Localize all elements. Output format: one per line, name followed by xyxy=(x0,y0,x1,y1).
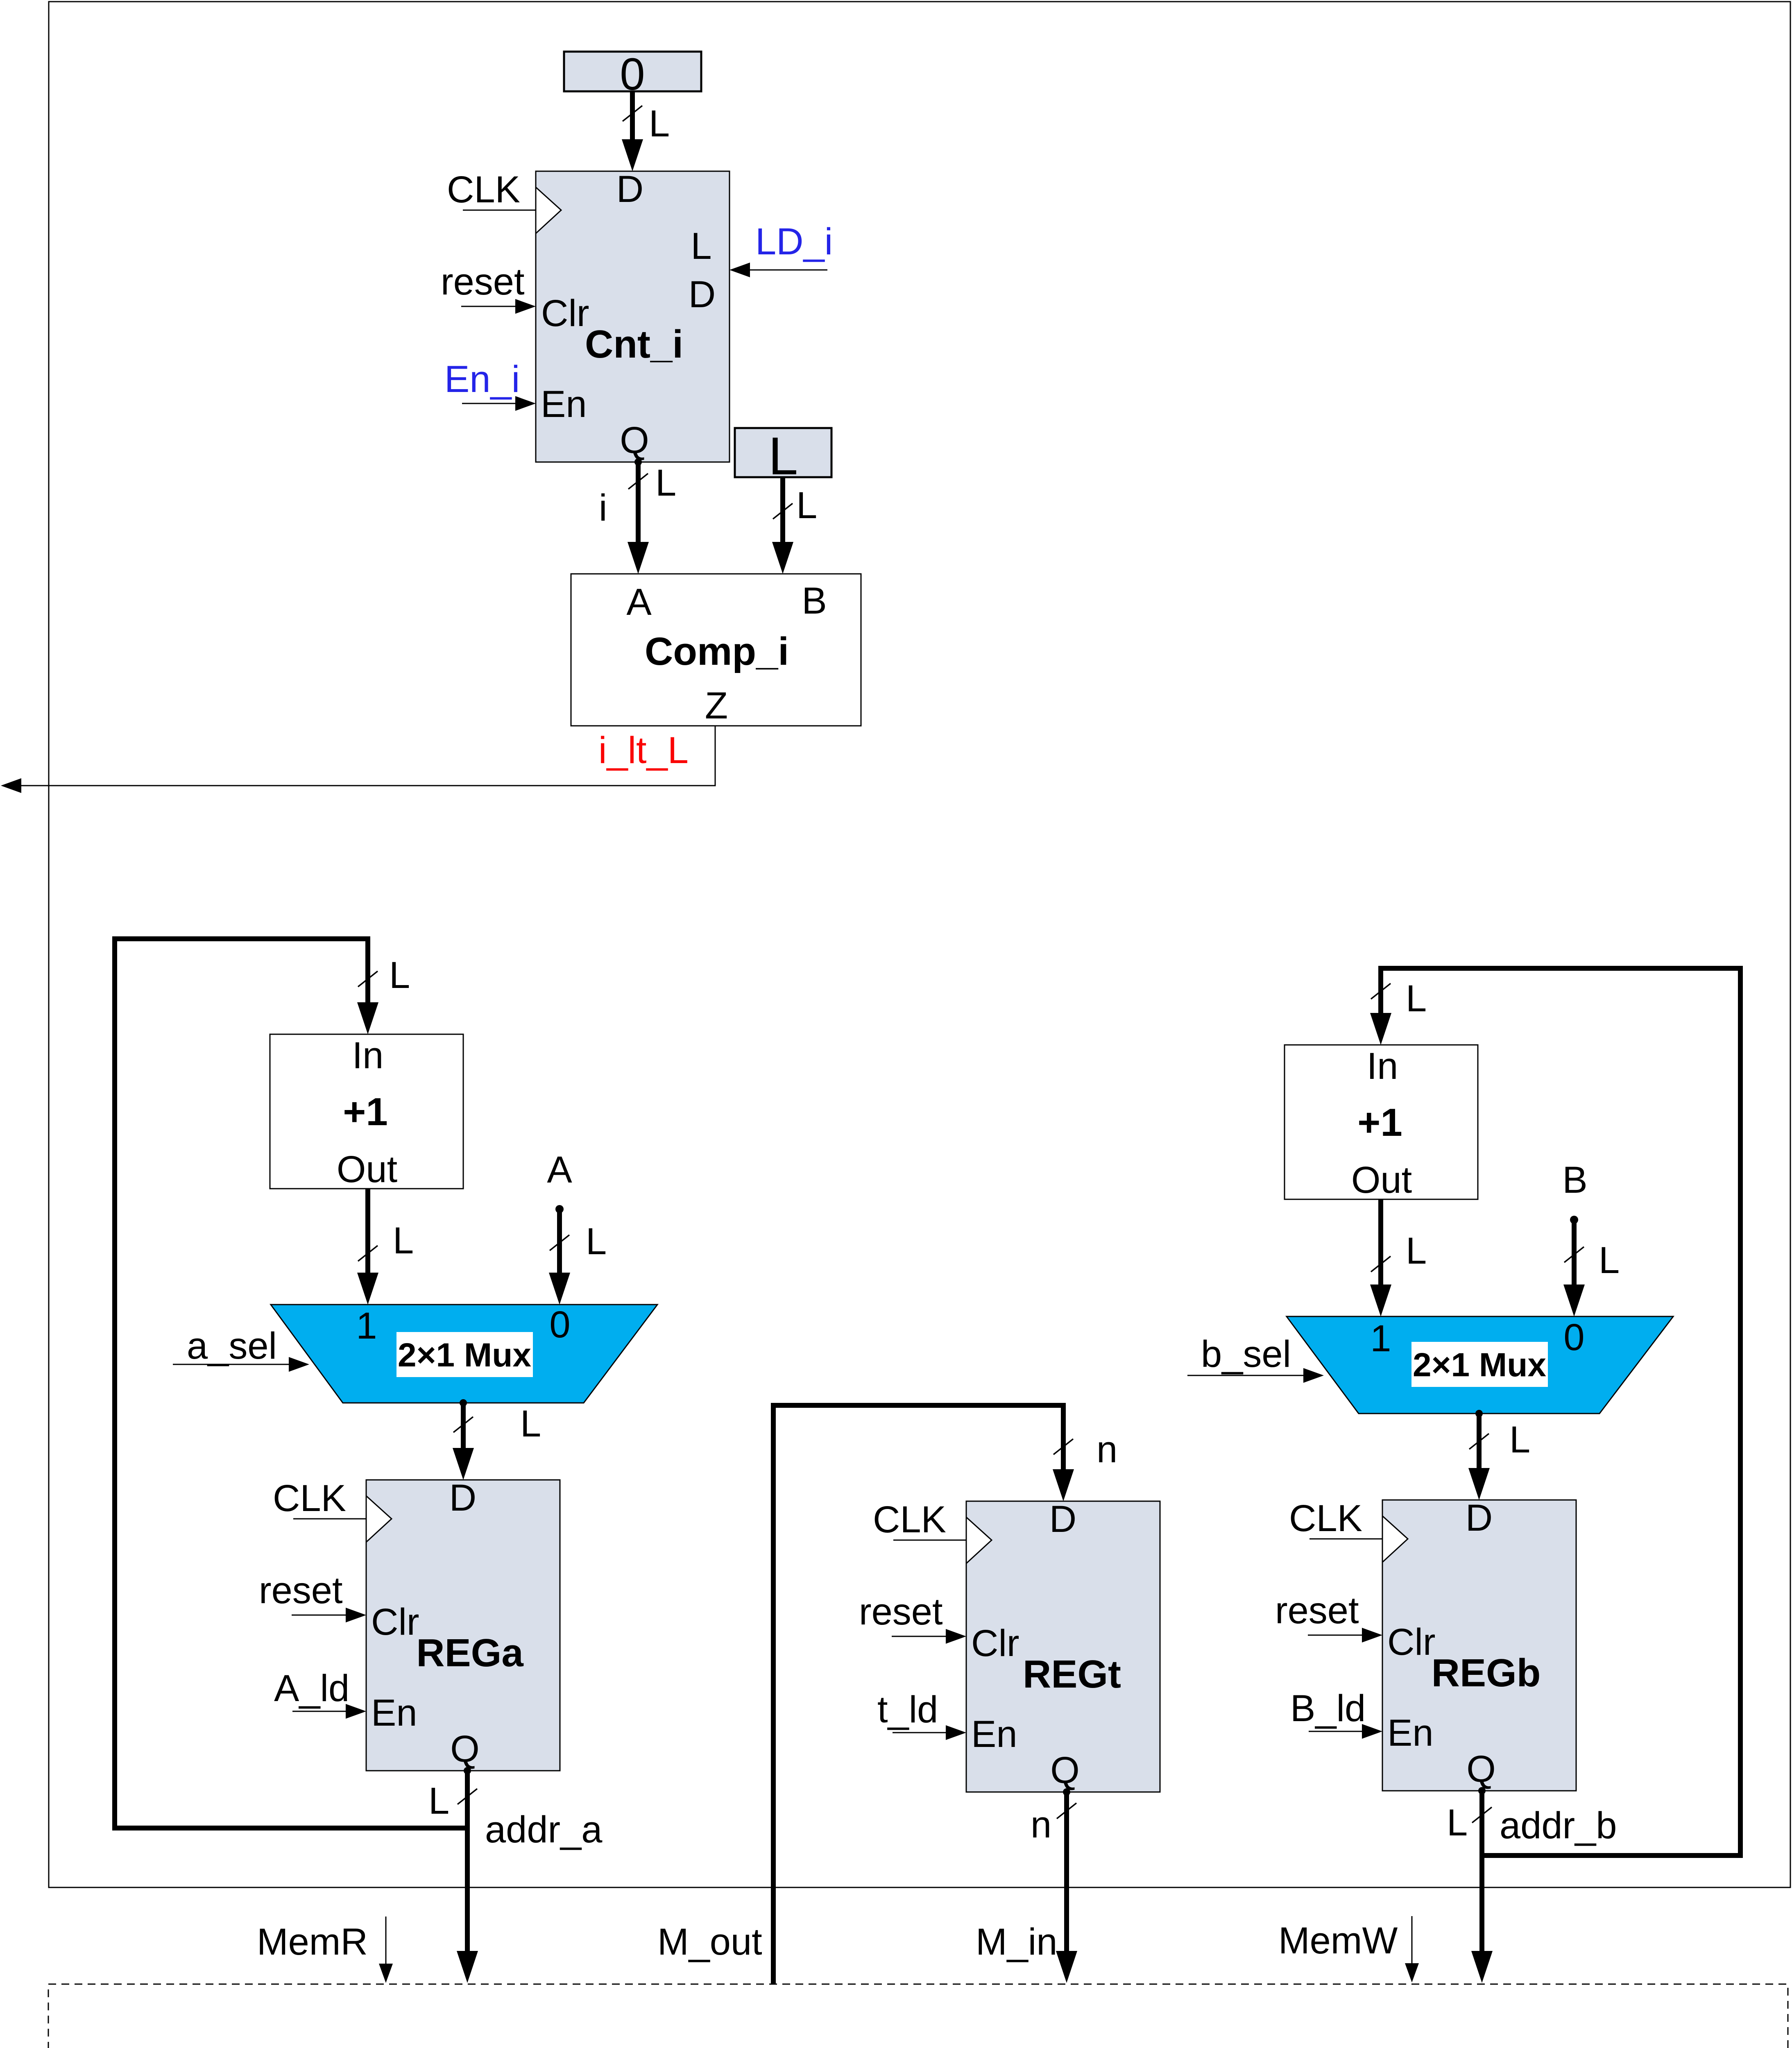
bus wire +1 Out to mux input 1 (left) xyxy=(357,1189,414,1305)
incrementer +1 (left) xyxy=(270,1034,463,1190)
input B bus wire to mux input 0 (right) xyxy=(1562,1159,1620,1316)
bus wire L box to Comp_i B xyxy=(772,477,817,574)
svg-text:A: A xyxy=(626,581,652,623)
register REGa xyxy=(366,1477,560,1771)
svg-text:Z: Z xyxy=(705,685,728,727)
svg-text:Out: Out xyxy=(337,1149,397,1190)
svg-text:Q: Q xyxy=(1466,1748,1496,1790)
bus wire mux out to REGb D (right) xyxy=(1468,1410,1530,1500)
svg-text:CLK: CLK xyxy=(447,169,520,211)
reset input of Cnt_i xyxy=(441,261,536,314)
svg-text:i: i xyxy=(599,487,607,529)
svg-text:D: D xyxy=(689,274,716,315)
svg-text:L: L xyxy=(1509,1419,1530,1461)
svg-text:A_ld: A_ld xyxy=(274,1667,349,1709)
constant 0 box xyxy=(564,49,701,100)
CLK input of Cnt_i xyxy=(447,169,536,211)
A_ld input of REGa xyxy=(274,1667,366,1719)
svg-text:CLK: CLK xyxy=(273,1477,346,1519)
svg-text:1: 1 xyxy=(356,1305,377,1347)
CLK input of REGt xyxy=(873,1499,966,1541)
wire Comp_i Z output i_lt_L to left edge xyxy=(1,726,715,793)
bus wire REGb Q to memory (addr_b) xyxy=(1447,1787,1617,1983)
svg-text:L: L xyxy=(428,1780,449,1822)
svg-text:L: L xyxy=(796,485,817,526)
left feedback bus REGa Q to +1 In xyxy=(115,939,467,1828)
svg-text:Clr: Clr xyxy=(371,1601,419,1643)
bus wire M_out from memory to REGt D xyxy=(657,1405,1117,1984)
svg-text:CLK: CLK xyxy=(873,1499,946,1541)
En_i input (blue) xyxy=(444,358,536,411)
memory block (dashed) xyxy=(48,1984,1788,2048)
bus wire REGa Q to memory (addr_a) xyxy=(428,1767,603,1983)
svg-text:REGb: REGb xyxy=(1432,1651,1541,1695)
CLK input of REGb xyxy=(1289,1497,1382,1539)
svg-text:Clr: Clr xyxy=(971,1622,1019,1664)
svg-text:D: D xyxy=(1049,1498,1076,1540)
svg-text:CLK: CLK xyxy=(1289,1497,1362,1539)
B_ld input of REGb xyxy=(1290,1688,1382,1739)
svg-text:In: In xyxy=(352,1035,384,1076)
svg-text:Comp_i: Comp_i xyxy=(645,630,789,673)
t_ld input of REGt xyxy=(877,1689,966,1740)
svg-text:En_i: En_i xyxy=(444,358,520,400)
svg-text:En: En xyxy=(371,1692,417,1734)
svg-text:reset: reset xyxy=(441,261,525,303)
2x1 mux (right) xyxy=(1287,1316,1673,1414)
svg-text:LD_i: LD_i xyxy=(755,221,833,263)
svg-text:In: In xyxy=(1367,1045,1398,1087)
register REGb xyxy=(1382,1497,1576,1791)
bus wire mux out to REGa D (left) xyxy=(453,1399,541,1480)
comparator Comp_i xyxy=(571,574,861,727)
register REGt xyxy=(966,1498,1160,1792)
reset input of REGt xyxy=(859,1591,966,1644)
svg-text:B_ld: B_ld xyxy=(1290,1688,1366,1729)
svg-text:L: L xyxy=(1599,1239,1620,1281)
svg-text:reset: reset xyxy=(1275,1590,1359,1631)
svg-text:Q: Q xyxy=(1050,1749,1080,1791)
svg-text:reset: reset xyxy=(259,1570,343,1611)
CLK input of REGa xyxy=(273,1477,366,1519)
svg-text:L: L xyxy=(691,225,711,267)
b_sel select input xyxy=(1187,1333,1324,1383)
svg-text:0: 0 xyxy=(549,1304,570,1346)
svg-text:Clr: Clr xyxy=(541,292,589,334)
svg-text:REGa: REGa xyxy=(416,1631,523,1675)
svg-text:Q: Q xyxy=(450,1728,480,1770)
svg-text:MemW: MemW xyxy=(1278,1920,1398,1962)
svg-text:L: L xyxy=(649,103,670,145)
svg-text:L: L xyxy=(655,462,676,504)
incrementer +1 (right) xyxy=(1285,1045,1478,1201)
bus wire REGt Q to memory (M_in) xyxy=(976,1788,1077,1983)
svg-text:2×1 Mux: 2×1 Mux xyxy=(398,1337,531,1374)
svg-text:L: L xyxy=(389,954,410,996)
a_sel select input xyxy=(173,1325,309,1372)
svg-text:2×1 Mux: 2×1 Mux xyxy=(1413,1346,1546,1384)
reset input of REGb xyxy=(1275,1590,1382,1642)
input A bus wire to mux input 0 (left) xyxy=(547,1149,607,1305)
svg-text:a_sel: a_sel xyxy=(187,1325,277,1367)
svg-text:n: n xyxy=(1096,1429,1117,1470)
svg-text:addr_a: addr_a xyxy=(485,1809,603,1851)
svg-text:M_in: M_in xyxy=(976,1921,1057,1963)
svg-text:Cnt_i: Cnt_i xyxy=(585,322,683,366)
svg-text:n: n xyxy=(1031,1804,1051,1846)
svg-text:REGt: REGt xyxy=(1023,1652,1121,1696)
svg-text:Clr: Clr xyxy=(1387,1621,1436,1663)
bus wire Cnt_i Q to Comp_i A (signal i) xyxy=(599,458,676,574)
bus wire 0 to Cnt_i D xyxy=(622,91,670,171)
reset input of REGa xyxy=(259,1570,366,1622)
svg-text:i_lt_L: i_lt_L xyxy=(598,729,689,771)
svg-text:L: L xyxy=(520,1403,541,1445)
svg-text:En: En xyxy=(971,1713,1017,1755)
svg-text:L: L xyxy=(768,426,798,486)
svg-text:reset: reset xyxy=(859,1591,943,1633)
svg-text:b_sel: b_sel xyxy=(1201,1333,1291,1375)
svg-text:En: En xyxy=(1387,1712,1434,1754)
svg-text:L: L xyxy=(1406,978,1427,1019)
svg-text:D: D xyxy=(616,168,643,210)
svg-text:D: D xyxy=(1466,1497,1493,1539)
LD_i input (blue) xyxy=(729,221,833,277)
svg-text:0: 0 xyxy=(1563,1316,1584,1358)
svg-text:B: B xyxy=(1562,1159,1587,1201)
svg-text:L: L xyxy=(1406,1230,1427,1272)
svg-text:1: 1 xyxy=(1370,1318,1391,1359)
svg-text:t_ld: t_ld xyxy=(877,1689,938,1731)
bus wire +1 Out to mux input 1 (right) xyxy=(1370,1199,1427,1316)
svg-text:Out: Out xyxy=(1351,1159,1412,1201)
svg-text:addr_b: addr_b xyxy=(1500,1805,1617,1846)
svg-text:L: L xyxy=(1447,1802,1468,1844)
MemR control input xyxy=(257,1917,393,1983)
svg-text:L: L xyxy=(393,1220,414,1262)
constant L box xyxy=(735,426,831,486)
counter Cnt_i xyxy=(536,168,729,462)
svg-text:Q: Q xyxy=(620,419,649,461)
svg-text:+1: +1 xyxy=(1357,1101,1402,1144)
right feedback bus REGb Q to +1 In xyxy=(1370,968,1740,1855)
2x1 mux (left) xyxy=(271,1304,657,1403)
MemW control input xyxy=(1278,1916,1419,1982)
svg-text:L: L xyxy=(586,1221,607,1262)
svg-text:MemR: MemR xyxy=(257,1921,368,1963)
svg-text:A: A xyxy=(547,1149,572,1191)
svg-text:D: D xyxy=(449,1477,476,1519)
svg-text:B: B xyxy=(802,580,827,622)
svg-text:M_out: M_out xyxy=(657,1921,762,1963)
svg-text:+1: +1 xyxy=(343,1090,387,1134)
svg-text:En: En xyxy=(541,383,587,425)
